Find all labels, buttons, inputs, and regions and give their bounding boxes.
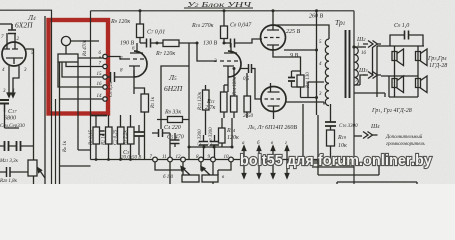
capacitor C13 plates: [325, 122, 336, 126]
heater wire d: [286, 146, 288, 178]
unch block top border / +260V rail: [91, 10, 355, 12]
Sh4 wire: [354, 135, 362, 137]
resistor row body 3: [118, 127, 125, 144]
unch pin 8: [199, 157, 204, 162]
resistor R15g body: [244, 96, 251, 112]
unch pin 9: [211, 157, 216, 162]
C3 wires: [138, 125, 140, 155]
tube L6 envelope: [261, 25, 286, 50]
heater arrow c up: [271, 146, 275, 151]
C9 feed wire: [390, 35, 405, 46]
unch pin 7: [153, 157, 158, 162]
wire C6 left: [107, 76, 117, 78]
cathode bypass cap plates: [288, 78, 295, 82]
potentiometer P2 body: [202, 175, 218, 182]
node dot grid L7: [233, 67, 236, 70]
resistor R13 body: [203, 90, 210, 110]
connector bus lines: [373, 46, 378, 97]
potentiometer R21 wiper arrow: [38, 168, 45, 178]
wire pot tap to pin7: [66, 62, 105, 67]
speaker feed risers: [395, 46, 419, 97]
wire pot top terminal: [71, 40, 99, 42]
wire top feed: [0, 23, 12, 25]
L5b cathode link: [224, 84, 228, 86]
tube L6 plate wire to rail: [272, 11, 274, 25]
heater wire c: [272, 146, 274, 178]
node dot secondary: [352, 45, 355, 48]
resistor R14g body: [231, 96, 238, 112]
unch pin 11: [168, 157, 173, 162]
tube L4 pin 5 wire: [26, 49, 34, 184]
secondary top stub: [355, 46, 367, 48]
cathode joint wire: [273, 50, 301, 75]
tube L5a anode: [130, 43, 143, 53]
potentiometer R4 body: [58, 54, 78, 62]
tube L5b envelope (half): [228, 51, 241, 77]
tube L5a envelope (half): [134, 51, 147, 77]
tube L7 plate wire: [286, 102, 324, 105]
red annotation rectangle: [49, 20, 109, 114]
cathode wire and cap C6: [107, 70, 134, 94]
bottom wire h2: [318, 158, 379, 175]
wire bottom: [0, 171, 28, 173]
arrows to C17: [7, 86, 15, 97]
node dot rail R9: [139, 9, 142, 12]
heater arrow a down: [242, 174, 246, 179]
cathode resistor R17 body: [297, 75, 304, 87]
C5v wires: [174, 133, 176, 147]
tube L6 anode: [267, 25, 279, 30]
C17 lower stub: [4, 104, 6, 113]
heater arrow d up: [285, 146, 289, 151]
resistor row body 1: [93, 127, 100, 144]
wire pot bottom terminal drop: [78, 62, 91, 150]
wire bottom loop: [60, 98, 106, 100]
heater arrow d down: [285, 174, 289, 179]
wire tap2: [62, 62, 105, 77]
L5b cathode wire: [227, 77, 229, 92]
heater arrow c down: [271, 174, 275, 179]
wire pot right to pin6: [78, 57, 105, 59]
caps pair wire: [0, 145, 34, 147]
unch pin 10: [229, 157, 234, 162]
heater wire a: [243, 146, 245, 178]
tube L7 envelope: [261, 87, 286, 112]
tube L4 anode wires: [4, 33, 18, 49]
tube L6 grid dashes: [264, 37, 280, 39]
P1 wiper arrow: [181, 167, 190, 176]
cathode L7 bottom stub: [273, 112, 275, 120]
tube L4 top cap capacitor: [8, 24, 16, 34]
unch block left border: [90, 11, 92, 160]
3300 caps wires: [204, 135, 215, 160]
tube L7 grid wire and cap C10: [240, 69, 261, 100]
row1 wires: [95, 115, 97, 160]
capacitor C4 plates: [159, 129, 163, 137]
svg-text:bolt55 для forum.onliner.by: bolt55 для forum.onliner.by: [240, 152, 432, 169]
Sh2 wire: [363, 43, 381, 45]
wire R12 right: [179, 42, 197, 44]
feedback loop around L5 label: [161, 43, 189, 120]
node dot plate2: [223, 42, 226, 45]
tube L7 grid dashes: [265, 98, 281, 100]
bypass cap wires: [292, 71, 301, 87]
tube L4 envelope: [2, 42, 26, 66]
wire tap3: [58, 62, 105, 87]
P2 wiper arrow: [201, 167, 210, 176]
wire grid2 drop: [197, 43, 217, 61]
tube L4 cathode bar: [6, 58, 23, 64]
potentiometer R21 body: [28, 160, 37, 176]
C4 wires: [152, 120, 170, 163]
tube L7 anode: [268, 83, 280, 92]
bottom wire h1: [303, 104, 318, 161]
bottom wire v2: [317, 115, 319, 175]
resistor R12 body: [163, 40, 179, 47]
capacitor C8 plates: [231, 39, 235, 48]
node dot R12 node: [196, 42, 199, 45]
R15g wires: [246, 73, 248, 118]
wire C7 to R12: [151, 42, 164, 44]
capacitor C7 plates: [147, 39, 151, 48]
node dot screen1: [315, 49, 318, 52]
tube L4 pins 3,4 down wires: [9, 66, 19, 86]
scan noise overlay: [0, 0, 455, 184]
capacitor C17 plates: [0, 100, 9, 104]
pot feed wires: [155, 162, 231, 184]
heater arrow b up: [257, 146, 261, 151]
capacitor Csr pair plates: [5, 141, 21, 151]
wire pin2 riser: [44, 16, 46, 184]
C13 wires: [330, 104, 332, 130]
Sh3 wire: [363, 74, 381, 76]
title underline: [184, 7, 253, 9]
R9 wires: [139, 11, 141, 43]
tube L5b anode: [224, 43, 237, 53]
tube L5b cathode: [223, 66, 234, 77]
wire gap bottom link: [60, 165, 91, 167]
speaker bottom return: [354, 76, 389, 97]
tube L5b grid dashes: [220, 60, 238, 62]
tube L7 cathode stub: [268, 106, 280, 112]
Rk wires: [134, 88, 145, 160]
heater arrow a up: [242, 146, 246, 151]
row3 wires: [120, 115, 122, 160]
cathode resistor Rk body: [141, 94, 149, 112]
node dot rail R10: [223, 9, 226, 12]
R19 bottom wire: [330, 146, 332, 163]
speaker Gr2: [416, 76, 428, 93]
node dot C7/R12: [156, 42, 159, 45]
wire loop down to node row: [188, 120, 190, 160]
speaker Gr1: [392, 76, 404, 93]
resistor row body 2: [106, 127, 113, 144]
speaker woofer bus: [381, 75, 418, 77]
unch block right border: [353, 11, 355, 184]
capacitor C6 plates: [111, 72, 115, 82]
node row wire: [189, 146, 232, 148]
tube L5a grid wire: [107, 57, 126, 60]
R14g wires: [233, 69, 235, 119]
node dot rail L6: [272, 9, 275, 12]
wire C17 to lower caps: [5, 104, 20, 129]
row2 wires: [108, 115, 110, 160]
resistor R10 body: [221, 26, 228, 39]
pin circles column: [103, 54, 107, 58]
potentiometer P1 body: [182, 175, 199, 182]
bottom wire h5: [312, 166, 354, 168]
resistor row body 4: [128, 127, 135, 144]
left block top border: [0, 10, 52, 184]
unch pin 12: [181, 157, 186, 162]
node dots on border: [95, 158, 98, 161]
wire R9 to C7: [140, 42, 147, 44]
R11 wires: [223, 85, 225, 118]
C9 wire right: [409, 35, 424, 46]
capacitor C5v plates: [171, 140, 180, 144]
wire C8 to output grid: [235, 39, 263, 43]
node dot rail bus: [315, 9, 318, 12]
resistor Rd body: [219, 128, 226, 143]
heater arrow b down: [257, 174, 261, 179]
small cap between plates: [100, 131, 105, 135]
primary top wire: [273, 25, 329, 39]
capacitor C20 plates: [7, 167, 11, 177]
center tap wire: [301, 82, 325, 98]
tube L5a cathode: [129, 66, 140, 77]
capacitor C9 plates: [405, 31, 409, 40]
electrolytic C3 plates: [134, 132, 144, 136]
pot wiper terminal circle: [61, 36, 70, 45]
Sh2 chevrons: [368, 41, 378, 48]
node dot screen2: [315, 96, 318, 99]
resistor R9 body: [137, 24, 144, 38]
tube L5a grid dashes: [126, 58, 144, 60]
transformer core: [346, 30, 350, 98]
transformer Tr1 primary winding: [325, 39, 329, 106]
R13 wires: [205, 85, 207, 135]
bottom wire h4: [300, 162, 354, 164]
speaker bottom bus: [389, 96, 418, 98]
speaker pair1 top bus: [377, 45, 424, 47]
wire stub under red corner: [90, 115, 107, 117]
screen bus: [316, 11, 318, 115]
resistor R19 body: [327, 130, 335, 146]
R10 wires: [223, 11, 225, 43]
resistor R8 body: [168, 117, 183, 123]
Sh4 chevrons: [363, 132, 373, 139]
R17 bottom wire: [300, 87, 302, 98]
Sh4 stub: [373, 134, 378, 136]
capacitor C10 plates: [249, 64, 252, 73]
paper background: [0, 0, 455, 184]
tube L6 cathode: [267, 45, 279, 50]
unch block bottom border: [91, 159, 355, 161]
heater wire b: [258, 146, 260, 178]
wire left drop: [55, 99, 57, 184]
speaker Gr3: [392, 49, 404, 66]
wire plate2 to C8: [224, 42, 230, 44]
node dots row: [188, 146, 191, 149]
R8 wires: [157, 119, 189, 121]
secondary bottom stub: [355, 75, 367, 85]
caps 3300 pair plates: [199, 142, 219, 146]
wire gap riser A: [59, 62, 61, 184]
Rd wires: [222, 118, 232, 147]
row4 wires: [130, 115, 132, 160]
speaker Gr4: [416, 49, 428, 66]
transformer Tr1 secondary winding: [355, 47, 359, 85]
bottom wire h3: [337, 182, 417, 184]
Sh3 chevrons: [368, 72, 378, 79]
resistor R11 body: [221, 92, 228, 112]
tube L6 screen wire: [284, 49, 317, 51]
pot wiper stem: [65, 46, 67, 54]
